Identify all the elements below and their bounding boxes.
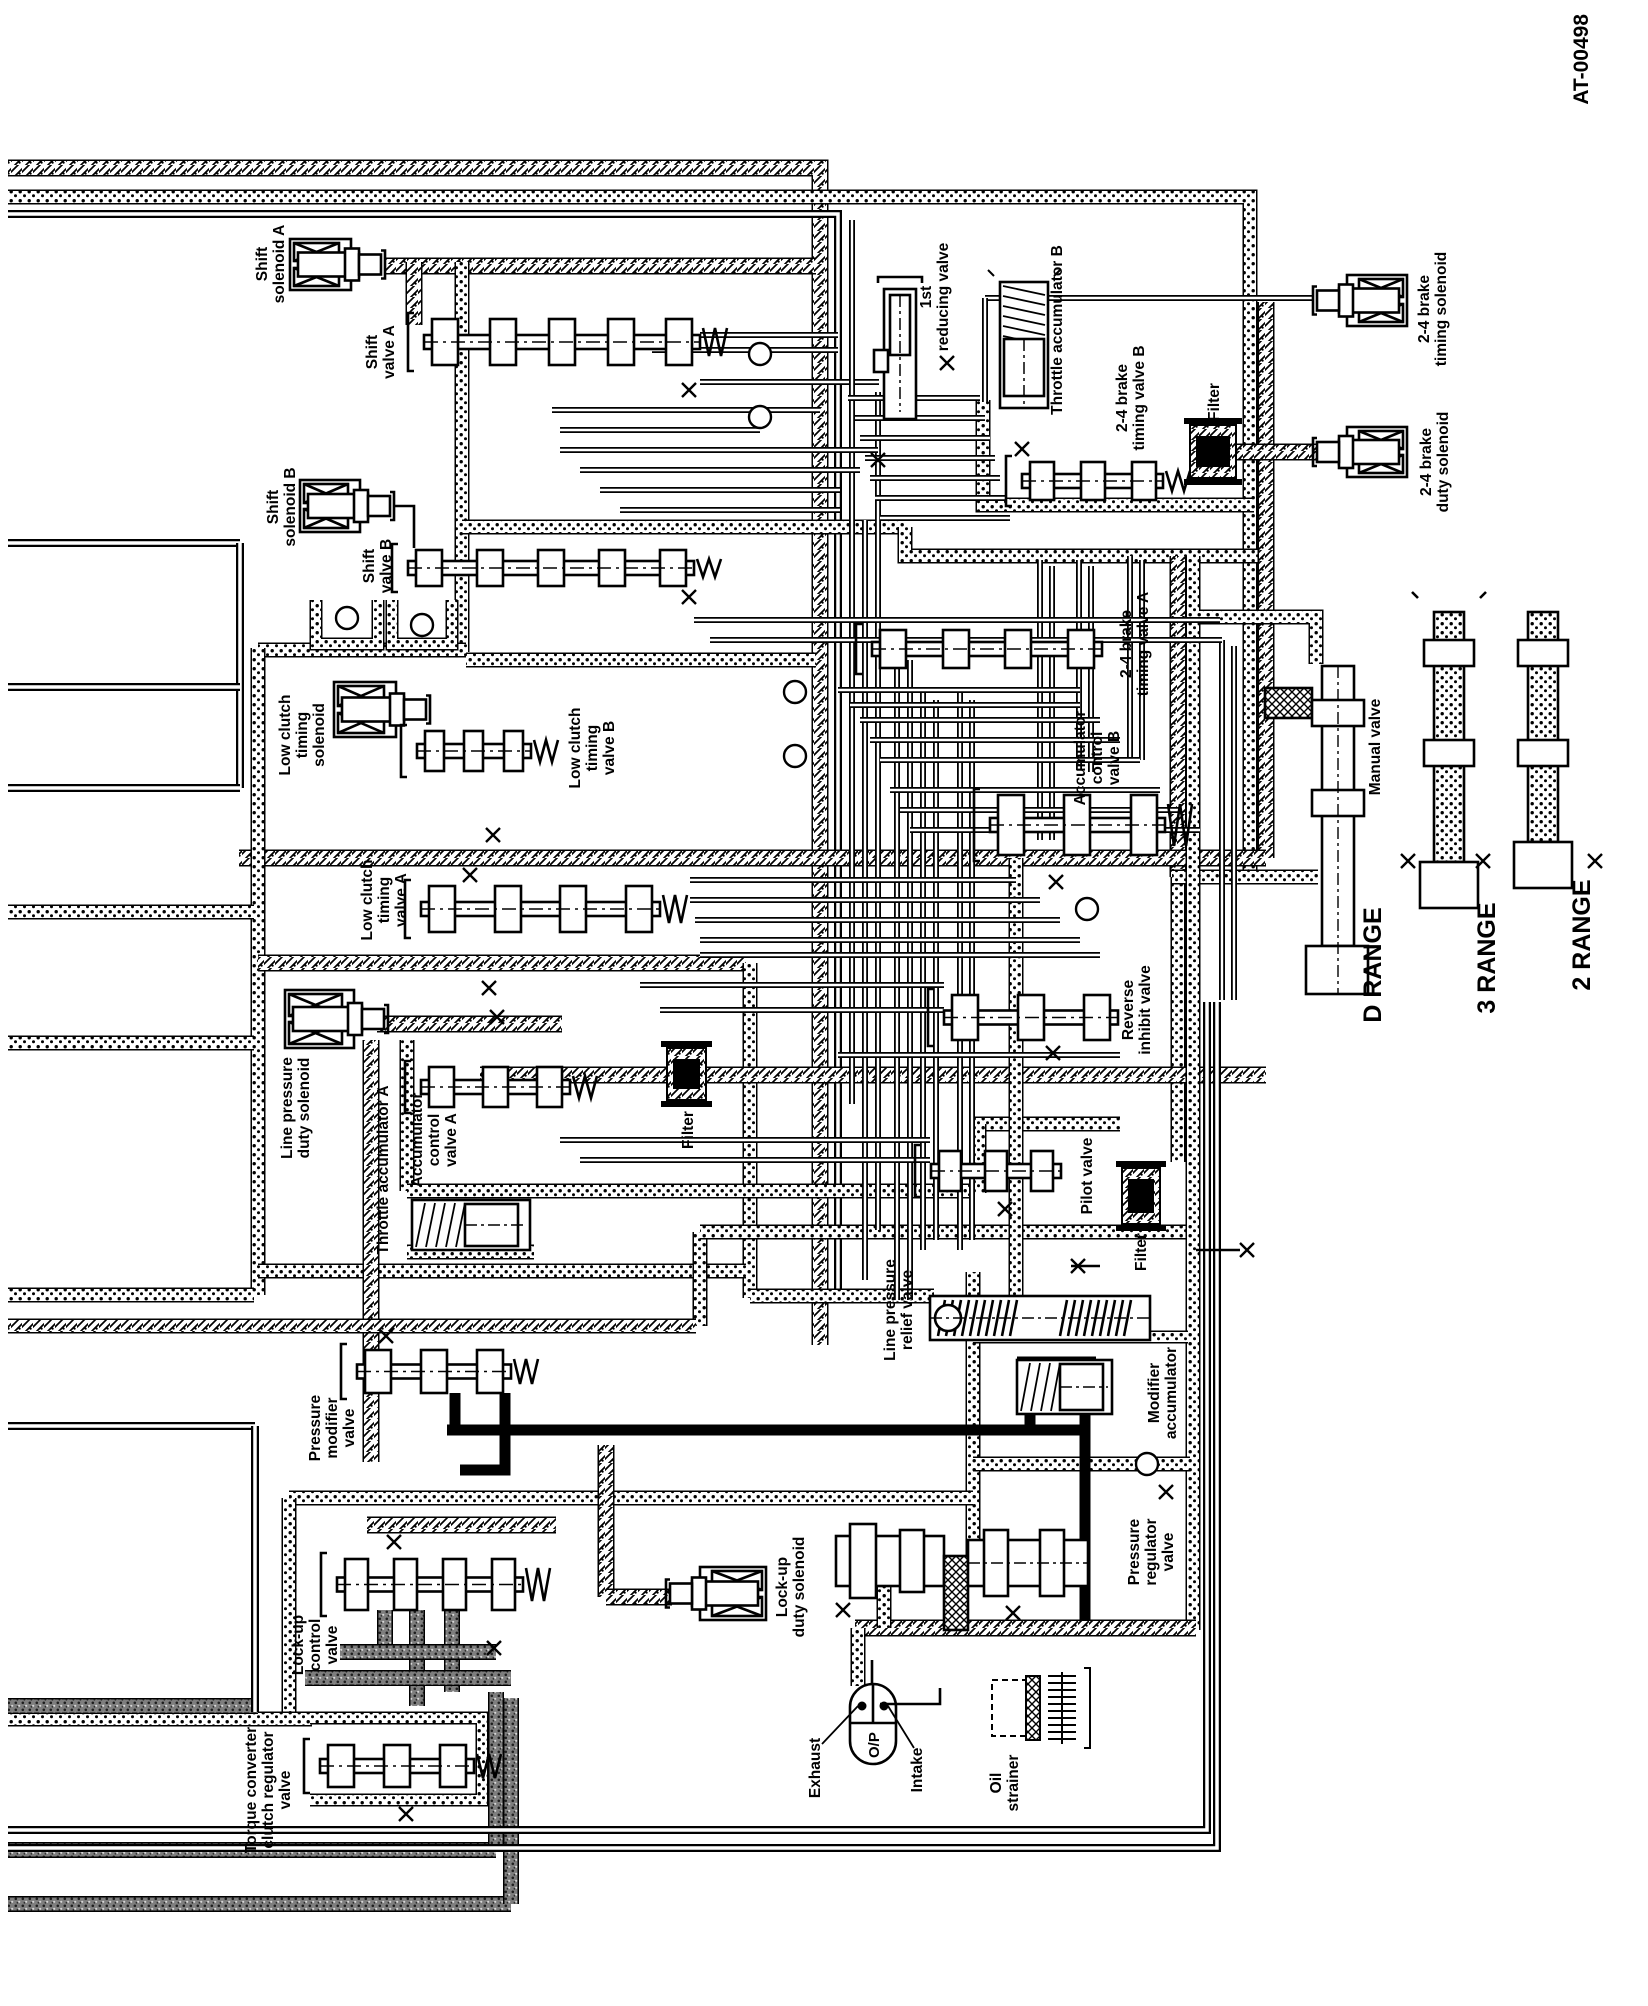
svg-text:timing: timing [584, 725, 601, 772]
svg-text:3 RANGE: 3 RANGE [1473, 902, 1501, 1013]
pipe: long hatch py1075 through filter [480, 1067, 1266, 1084]
pipe: acc control A box left [400, 1040, 415, 1191]
exhaust X (1078,1266) [1071, 1259, 1085, 1273]
svg-text:Modifier: Modifier [1146, 1363, 1163, 1423]
svg-text:Pressure: Pressure [307, 1394, 324, 1461]
exhaust X (406,1814) [399, 1807, 413, 1821]
svg-text:Shift: Shift [364, 335, 381, 369]
pipe: horiz py650 left block [258, 643, 466, 658]
valve: Shift valve A [408, 313, 727, 371]
pipe plain: long bottom py1848 [8, 1002, 1217, 1848]
svg-text:reducing valve: reducing valve [935, 242, 952, 351]
svg-text:strainer: strainer [1005, 1755, 1022, 1812]
accumulator: Throttle accumulator A [412, 1200, 530, 1250]
svg-text:2-4 brake: 2-4 brake [1118, 610, 1135, 678]
exhaust X (947,363) [940, 356, 954, 370]
exhaust X (493,835) [486, 828, 500, 842]
check ball (795,756) [784, 745, 806, 767]
svg-text:timing solenoid: timing solenoid [1433, 252, 1450, 367]
pipe: top dotted border + right leg px1250 [8, 197, 1250, 877]
valve: Low clutch timing valve B [401, 725, 558, 777]
exhaust X (489,988) [482, 981, 496, 995]
pipe: drop to shift valve A [406, 262, 423, 325]
svg-text:Throttle accumulator A: Throttle accumulator A [375, 1085, 392, 1254]
wire: X stub right [1196, 1249, 1240, 1252]
pipe: horiz py1295 [8, 1288, 254, 1303]
exhaust X (1166,1492) [1159, 1485, 1173, 1499]
exhaust X (1247,1250) [1240, 1243, 1254, 1257]
pump O/P [850, 1684, 896, 1764]
exhaust X (1053,1053) [1046, 1046, 1060, 1060]
pipe: horiz py1719 [8, 1712, 312, 1727]
pipe: manual valve top feed [1199, 617, 1316, 664]
pipe: throttle acc A box bottom [407, 1245, 534, 1260]
pipe: throttle accumulator A vertical [363, 1040, 380, 1462]
svg-text:solenoid B: solenoid B [282, 467, 299, 546]
pipe: vertical hatch px1266 [1258, 302, 1275, 858]
svg-text:valve B: valve B [601, 721, 618, 775]
svg-text:AT-00498: AT-00498 [1570, 14, 1593, 105]
svg-text:Line pressure: Line pressure [882, 1259, 899, 1361]
svg-text:Accumulator: Accumulator [409, 1093, 426, 1188]
pipe: horiz py1271 [258, 1264, 746, 1279]
solenoid: Shift solenoid B [300, 480, 394, 532]
pipe black: accumulator top [1017, 1357, 1096, 1368]
pipe: horiz py1464 [973, 1457, 1190, 1472]
svg-text:Lock-up: Lock-up [290, 1615, 307, 1675]
pipe: horiz py1296 to relief valve [750, 1289, 934, 1304]
pipe: vertical px462 [455, 262, 470, 652]
svg-text:D RANGE: D RANGE [1359, 907, 1387, 1022]
valve: Low clutch timing valve A [405, 880, 687, 938]
check ball (760,417) [749, 406, 771, 428]
pipe gray: vertical px385 [377, 1610, 393, 1655]
svg-text:control: control [1089, 732, 1106, 785]
svg-text:Torque converter: Torque converter [243, 1727, 260, 1853]
pipe: pump feed [851, 1628, 866, 1686]
pipe gray: horiz py1678 [305, 1670, 511, 1686]
pipe: 2-4 block left+bottom border [983, 400, 1254, 505]
pipe: horiz py1191 [407, 1184, 975, 1199]
solenoid: Lock-up duty solenoid [666, 1567, 766, 1620]
svg-text:Filter: Filter [1206, 383, 1223, 421]
filter: right middle [1116, 1164, 1166, 1228]
pipe: vertical px973 [966, 1272, 981, 1562]
valve: 1st reducing valve [874, 277, 922, 419]
svg-text:timing: timing [294, 712, 311, 759]
solenoid: Low clutch timing solenoid [334, 682, 430, 737]
pipe gray: horiz py1652 [340, 1644, 496, 1660]
oil strainer [992, 1668, 1090, 1748]
svg-text:2-4 brake: 2-4 brake [1114, 364, 1131, 432]
valve: Lock-up control valve [321, 1553, 550, 1616]
wire: solenoid B to shift valve B [395, 506, 414, 548]
svg-text:inhibit valve: inhibit valve [1137, 965, 1154, 1055]
svg-text:valve: valve [324, 1625, 341, 1664]
pipe gray: vertical px417 [409, 1610, 425, 1706]
pipe: horiz py556 to right [905, 527, 1268, 556]
valve: Manual valve (D position) [1265, 666, 1368, 994]
pipe: pilot block left [972, 1124, 987, 1193]
wire: 2-4 brake timing solenoid line [985, 295, 1314, 301]
exhaust X (689,597) [682, 590, 696, 604]
svg-text:Pilot valve: Pilot valve [1079, 1137, 1096, 1214]
valve: 2-4 brake timing valve A [856, 624, 1102, 674]
pipe: torque converter valve pocket [310, 1718, 482, 1800]
pipe: vertical px884 [877, 1557, 892, 1628]
valve: Shift valve B [392, 544, 721, 592]
svg-text:Intake: Intake [909, 1747, 926, 1792]
pipe: long vertical px1193 [1186, 556, 1201, 1630]
wire: to 1st reducing valve [700, 379, 879, 385]
svg-text:relief valve: relief valve [899, 1270, 916, 1351]
accumulator: Modifier accumulator [1017, 1360, 1112, 1414]
exhaust X (878,460) [871, 453, 885, 467]
svg-text:Shift: Shift [254, 247, 271, 281]
svg-text:Low clutch: Low clutch [359, 860, 376, 941]
pipe plain: vertical px240 [236, 543, 244, 788]
pipe: vertical px1016 [1009, 858, 1024, 1298]
pipe plain: long bottom py1830 [8, 1002, 1207, 1830]
svg-text:Shift: Shift [265, 490, 282, 524]
svg-text:duty solenoid: duty solenoid [791, 1537, 808, 1638]
svg-text:valve A: valve A [443, 1113, 460, 1167]
valve: Line pressure relief valve [930, 1296, 1150, 1340]
pipe: relief block bottom py1337 [973, 1331, 1188, 1344]
exhaust X (497,1017) [490, 1010, 504, 1024]
pipe black: modifier valve second drop [460, 1393, 505, 1470]
svg-text:duty solenoid: duty solenoid [296, 1058, 313, 1159]
pipe gray: py1904 [8, 1896, 511, 1912]
svg-text:regulator: regulator [1143, 1518, 1160, 1585]
valve: Pressure modifier valve [341, 1344, 538, 1399]
check ball (1087,909) [1076, 898, 1098, 920]
pipe gray: py1706 [8, 1698, 258, 1714]
pipe plain: py543 [8, 539, 240, 547]
pipe: vertical px606 [598, 1445, 615, 1597]
pipe plain: py687 [8, 683, 240, 691]
pipe: long horiz py1326 [8, 1319, 696, 1334]
solenoid: 2-4 brake duty solenoid [1313, 427, 1407, 477]
svg-text:timing: timing [376, 877, 393, 924]
wire cluster: shift valve network [849, 220, 855, 1104]
solenoid: Line pressure duty solenoid [285, 990, 388, 1048]
svg-text:valve A: valve A [381, 325, 398, 379]
pipe gray: vertical px452 [444, 1610, 460, 1692]
pipe: vertical px289 [282, 1498, 297, 1717]
svg-text:duty solenoid: duty solenoid [1435, 412, 1452, 513]
check ball (795,692) [784, 681, 806, 703]
svg-text:Lock-up: Lock-up [774, 1557, 791, 1617]
pipe black: up to modifier accumulator [1025, 1362, 1036, 1430]
wire: pump up [871, 1660, 874, 1684]
svg-text:solenoid: solenoid [311, 703, 328, 767]
pipe: left vertical px258 [251, 648, 266, 1295]
pipe: horiz py527 [462, 520, 905, 535]
solenoid: Shift solenoid A [290, 239, 385, 290]
valve: Accumulator control valve A [405, 1061, 597, 1113]
valve: Torque converter clutch regulator valve [304, 1739, 501, 1793]
pipe black: down to pressure regulator [1080, 1362, 1091, 1620]
svg-text:Filter: Filter [680, 1111, 697, 1149]
svg-text:valve: valve [277, 1770, 294, 1809]
pipe: ball pocket 1 [316, 600, 378, 644]
pipe gray: vertical px511 [503, 1698, 519, 1904]
svg-text:valve: valve [1160, 1532, 1177, 1571]
exhaust X (470,875) [463, 868, 477, 882]
svg-text:2 RANGE: 2 RANGE [1568, 879, 1596, 990]
exhaust X (1005,1209) [998, 1202, 1012, 1216]
svg-text:accumulator: accumulator [1163, 1347, 1180, 1439]
exhaust X (689,390) [682, 383, 696, 397]
pipe: pilot block top [973, 1117, 1120, 1132]
svg-text:Manual valve: Manual valve [1367, 698, 1384, 795]
valve: Pressure regulator valve [836, 1524, 1088, 1630]
svg-text:Throttle accumulator B: Throttle accumulator B [1049, 245, 1066, 415]
svg-text:modifier: modifier [324, 1397, 341, 1458]
pipe: horiz py1232 [700, 1225, 1196, 1240]
svg-text:Low clutch: Low clutch [567, 708, 584, 789]
exhaust X D range [1401, 854, 1415, 868]
pipe: pressure regulator block bottom [855, 1620, 1196, 1637]
svg-text:O/P: O/P [866, 1732, 883, 1758]
wire: drop to 2-4 block [982, 298, 988, 402]
exhaust X (843,1610) [836, 1603, 850, 1617]
svg-text:Accumulator: Accumulator [1072, 711, 1089, 806]
pipe: horiz py912 [8, 905, 254, 920]
valve: 2-4 brake timing valve B [1006, 456, 1190, 506]
filter: middle [661, 1044, 712, 1104]
svg-text:solenoid A: solenoid A [271, 225, 288, 304]
pipe: vertical px750 [743, 963, 758, 1298]
exhaust X (386,1336) [379, 1329, 393, 1343]
pipe: vertical dots px1178 to filter [1171, 877, 1186, 1162]
valve: Pilot valve [915, 1145, 1061, 1197]
pipe: horiz py963 [258, 955, 746, 972]
svg-text:valve B: valve B [1106, 731, 1123, 785]
check ball (760,354) [749, 343, 771, 365]
valve: 3 RANGE spool [1412, 592, 1486, 908]
svg-text:valve B: valve B [378, 539, 395, 593]
svg-text:2-4 brake: 2-4 brake [1418, 428, 1435, 496]
pipe: horiz py1043 [8, 1036, 254, 1051]
svg-text:clutch regulator: clutch regulator [260, 1731, 277, 1848]
wire: X stub relief [1071, 1265, 1100, 1268]
svg-text:control: control [307, 1619, 324, 1672]
svg-text:1st: 1st [918, 286, 935, 308]
check ball (347,618) [336, 607, 358, 629]
svg-text:Low clutch: Low clutch [277, 695, 294, 776]
pipe gray: vertical px496 [488, 1692, 504, 1850]
svg-text:valve: valve [341, 1408, 358, 1447]
svg-text:Reverse: Reverse [1120, 979, 1137, 1040]
pipe plain: vertical px255 [251, 1426, 259, 1712]
accumulator: Throttle accumulator B [1000, 282, 1048, 408]
filter: top right [1184, 421, 1242, 482]
exhaust X (394,1542) [387, 1535, 401, 1549]
pipe: ball pocket 2 [392, 600, 452, 644]
solenoid: 2-4 brake timing solenoid [1313, 275, 1407, 326]
exhaust X (1013,1613) [1006, 1606, 1020, 1620]
check ball (422,625) [411, 614, 433, 636]
svg-text:timing valve A: timing valve A [1135, 592, 1152, 697]
leader lines Exhaust / Intake [822, 1706, 914, 1748]
pipe: top plain line + vertical leg px838 [8, 214, 838, 1292]
svg-text:2-4 brake: 2-4 brake [1416, 275, 1433, 343]
valve: 2 RANGE spool [1514, 612, 1572, 888]
valve: Reverse inhibit valve [928, 989, 1118, 1046]
pipe gray: py1850 [8, 1842, 496, 1858]
pipe: shift solenoid A feed [385, 258, 816, 275]
exhaust X (1056,882) [1049, 875, 1063, 889]
pipe: low clutch block top border [466, 653, 816, 668]
pipe black: long py1430 [447, 1425, 1085, 1436]
pipe: vertical px700 [693, 1232, 708, 1326]
pipe: top hatch border + long vertical leg px820 [8, 168, 820, 1345]
pipe plain: py1426 [8, 1422, 255, 1430]
pipe: horiz py1498 [289, 1491, 973, 1506]
pipe: lock-up block top [367, 1517, 556, 1534]
exhaust X 3 range [1476, 854, 1490, 868]
svg-text:Oil: Oil [988, 1773, 1005, 1794]
svg-text:Filter: Filter [1133, 1233, 1150, 1271]
pipe plain: py788 [8, 784, 240, 792]
pipe: filter to 2-4 duty solenoid [1232, 444, 1316, 461]
pipe: line pressure duty solenoid feed [377, 1016, 562, 1033]
wire: pump to strainer [880, 1688, 940, 1704]
exhaust X (1022,449) [1015, 442, 1029, 456]
pipe: manual valve feed py877 [1172, 870, 1318, 885]
exhaust X (494,1648) [487, 1641, 501, 1655]
pipe: lock-up duty solenoid feed [606, 1589, 672, 1606]
check ball (1147,1464) [1136, 1453, 1158, 1475]
svg-text:timing valve B: timing valve B [1131, 345, 1148, 450]
pipe black: modifier valve drop [450, 1393, 461, 1430]
pipe: long hatch py858 [239, 850, 1266, 867]
svg-text:Shift: Shift [361, 549, 378, 583]
svg-text:Exhaust: Exhaust [807, 1738, 824, 1798]
svg-text:Line pressure: Line pressure [279, 1057, 296, 1159]
pipe: vertical hatch px1178 [1170, 556, 1187, 877]
svg-text:Pressure: Pressure [1126, 1518, 1143, 1585]
exhaust X 2 range [1588, 854, 1602, 868]
valve: Accumulator control valve B [974, 789, 1192, 861]
svg-text:control: control [426, 1114, 443, 1167]
svg-text:valve A: valve A [393, 873, 410, 927]
